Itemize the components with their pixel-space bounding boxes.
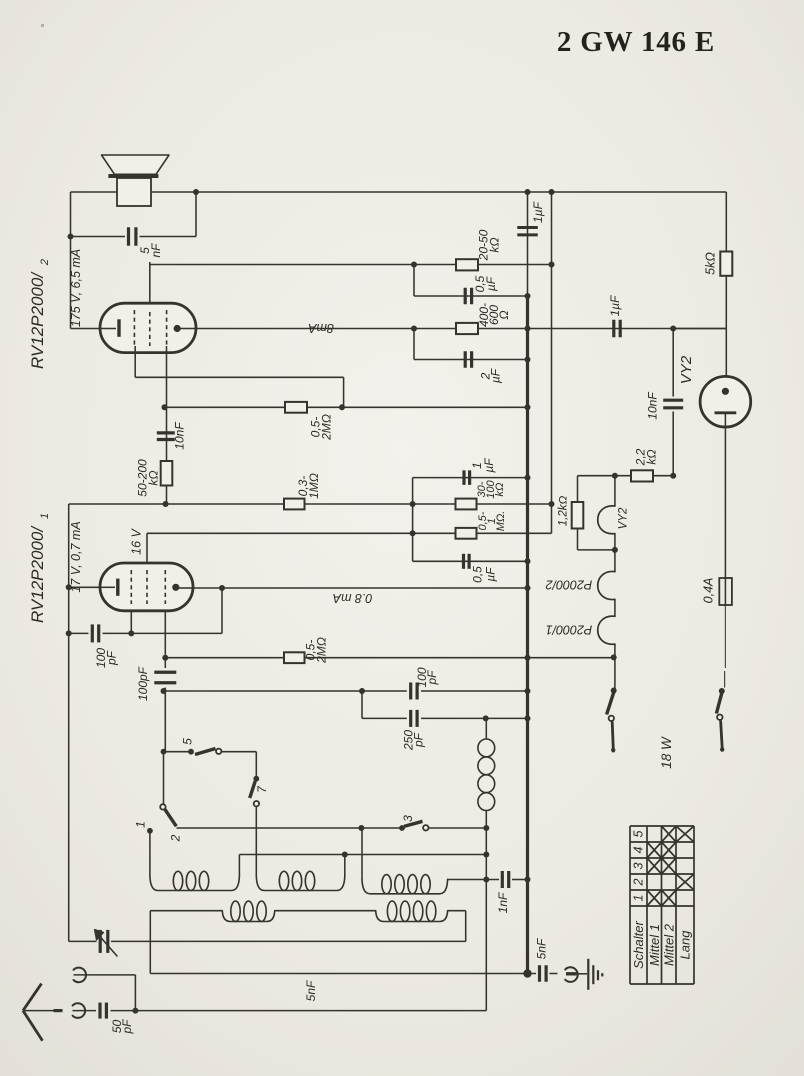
svg-text:Mittel 2: Mittel 2 xyxy=(661,923,676,966)
svg-text:5nF: 5nF xyxy=(304,980,318,1001)
svg-text:kΩ: kΩ xyxy=(494,483,506,497)
svg-text:Ω: Ω xyxy=(497,310,511,319)
svg-text:Lang: Lang xyxy=(678,930,693,960)
svg-text:0,5: 0,5 xyxy=(471,566,485,583)
svg-text:nF: nF xyxy=(149,243,163,258)
svg-text:0.8 mA: 0.8 mA xyxy=(333,591,373,605)
svg-text:18 W: 18 W xyxy=(659,736,674,769)
svg-text:pF: pF xyxy=(104,650,118,666)
svg-text:µF: µF xyxy=(489,368,503,383)
svg-text:2 GW 146 E: 2 GW 146 E xyxy=(557,26,715,58)
svg-text:1,2kΩ: 1,2kΩ xyxy=(558,496,570,527)
svg-text:µF: µF xyxy=(482,458,496,473)
svg-text:2MΩ: 2MΩ xyxy=(315,637,329,664)
svg-text:1µF: 1µF xyxy=(608,295,622,317)
svg-text:kΩ: kΩ xyxy=(645,449,659,464)
svg-text:1: 1 xyxy=(632,895,646,902)
svg-text:pF: pF xyxy=(120,1019,134,1035)
svg-text:pF: pF xyxy=(425,670,439,686)
svg-text:Mittel 1: Mittel 1 xyxy=(647,924,662,966)
svg-text:0,4A: 0,4A xyxy=(702,578,716,604)
svg-text:µF: µF xyxy=(484,276,498,291)
svg-text:5: 5 xyxy=(632,830,646,837)
svg-text:pF: pF xyxy=(412,732,426,748)
svg-text:5: 5 xyxy=(180,738,194,745)
svg-text:VY2: VY2 xyxy=(618,507,630,529)
svg-text:16 V: 16 V xyxy=(130,527,144,554)
svg-text:RV12P2000/: RV12P2000/ xyxy=(28,271,47,369)
svg-text:RV12P2000/: RV12P2000/ xyxy=(28,525,47,623)
svg-text:8mA: 8mA xyxy=(308,321,334,335)
svg-text:P2000/1: P2000/1 xyxy=(546,622,593,636)
svg-text:2: 2 xyxy=(632,878,646,886)
svg-text:4: 4 xyxy=(632,846,646,853)
svg-text:µF: µF xyxy=(484,567,498,582)
svg-text:2MΩ: 2MΩ xyxy=(320,414,334,441)
svg-text:MΩ.: MΩ. xyxy=(495,511,507,532)
svg-text:2: 2 xyxy=(169,834,183,842)
svg-text:VY2: VY2 xyxy=(678,355,695,384)
svg-text:2: 2 xyxy=(39,259,51,266)
svg-text:3: 3 xyxy=(632,862,646,869)
svg-text:Schalter: Schalter xyxy=(631,920,646,968)
svg-text:1: 1 xyxy=(39,513,51,519)
svg-text:10nF: 10nF xyxy=(173,422,187,450)
svg-text:kΩ: kΩ xyxy=(488,237,502,252)
svg-text:1nF: 1nF xyxy=(496,892,510,913)
svg-text:3: 3 xyxy=(401,815,415,822)
svg-text:5kΩ: 5kΩ xyxy=(704,252,718,275)
svg-text:P2000/2: P2000/2 xyxy=(546,578,593,592)
svg-text:1: 1 xyxy=(134,821,148,828)
svg-text:175 V, 6,5 mA: 175 V, 6,5 mA xyxy=(69,249,83,327)
svg-text:5nF: 5nF xyxy=(535,938,549,959)
svg-text:100pF: 100pF xyxy=(136,666,150,701)
svg-text:1MΩ: 1MΩ xyxy=(307,473,321,499)
svg-text:10nF: 10nF xyxy=(646,392,660,420)
svg-text:kΩ: kΩ xyxy=(147,470,161,485)
svg-text:1µF: 1µF xyxy=(531,201,545,223)
svg-text:17 V, 0,7 mA: 17 V, 0,7 mA xyxy=(69,521,83,592)
